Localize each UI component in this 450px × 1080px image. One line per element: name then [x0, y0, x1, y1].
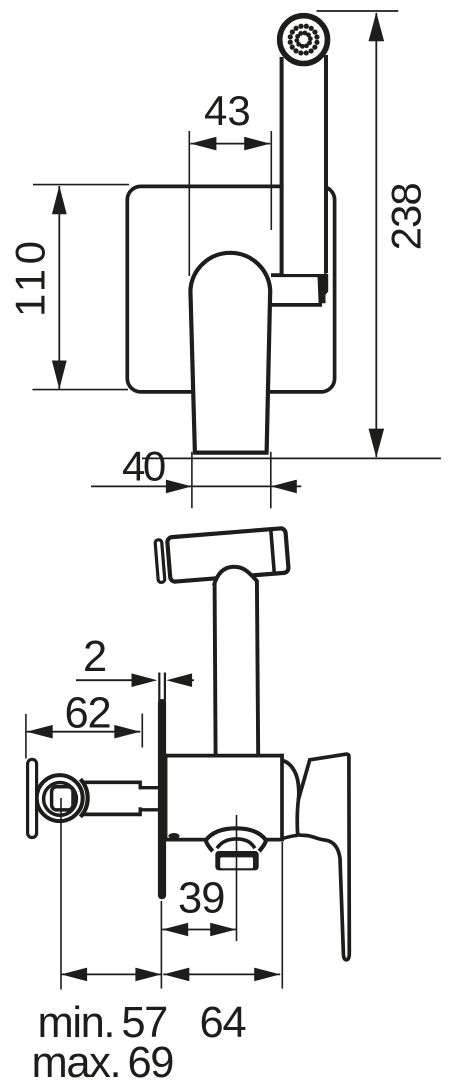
shower head [280, 16, 328, 64]
set screw [168, 833, 179, 839]
svg-text:40: 40 [122, 443, 165, 490]
dim 40 [91, 443, 301, 494]
svg-text:2: 2 [83, 633, 107, 681]
svg-text:max. 69: max. 69 [32, 1039, 174, 1080]
dim 2 [76, 633, 194, 687]
spout centerline [236, 815, 238, 941]
valve flange arc [80, 779, 87, 817]
dim 64 [163, 968, 280, 982]
lever (side view) [297, 754, 349, 960]
bottom reference line [142, 457, 441, 459]
cartridge dome (side) [283, 761, 299, 801]
valve pipe [83, 781, 159, 817]
aerator [215, 851, 258, 870]
mixer lever (front) [190, 253, 270, 453]
cross handle bar [28, 759, 37, 837]
dim 40 extension lines [191, 452, 193, 509]
hand shower head (tilted) [155, 528, 289, 583]
wall plate bar (edge view) [158, 699, 166, 899]
shower holder bracket [271, 274, 328, 305]
body right extension [281, 842, 283, 989]
spout inner dome [217, 839, 255, 848]
dim 238 extension line top [317, 10, 399, 12]
svg-text:110: 110 [7, 237, 54, 317]
dim 110 extension lines [33, 184, 129, 186]
dim 43 [190, 87, 270, 150]
svg-text:64: 64 [200, 999, 246, 1047]
valve bonnet outer circle [37, 775, 83, 821]
spout dome with flanks [206, 828, 266, 851]
svg-text:238: 238 [383, 183, 430, 250]
svg-text:43: 43 [204, 87, 251, 134]
shower neck hump [214, 567, 257, 586]
hand shower handle (front) [282, 55, 326, 275]
dim 238 [369, 12, 430, 457]
neck lines [215, 584, 216, 757]
dim 39 [162, 875, 236, 937]
valve square broach [52, 787, 73, 810]
dim 110 [7, 186, 67, 390]
body underside link to lever [282, 835, 298, 838]
wall line extension [160, 901, 162, 989]
valve inner circle [44, 783, 77, 816]
svg-text:39: 39 [178, 875, 224, 923]
svg-text:62: 62 [65, 690, 111, 738]
valve centerline [60, 798, 62, 990]
dim 43 extension lines [188, 131, 190, 276]
dim min/max [61, 968, 161, 982]
dim 62 [27, 690, 141, 739]
body (side view) [164, 754, 284, 842]
dim 62 extension lines [25, 714, 27, 759]
wall plate [127, 186, 334, 392]
